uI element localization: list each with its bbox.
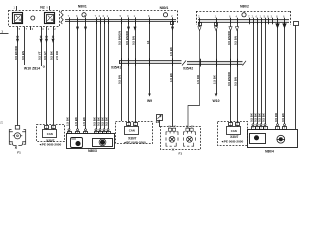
motor M2: [186, 128, 189, 131]
svg-text:E4: E4: [156, 120, 160, 124]
wire E4 to pump assembly: [159, 120, 161, 127]
arrowhead at W9: [148, 94, 151, 97]
rail pin: [199, 18, 201, 25]
connector rail of N80/2: [198, 19, 289, 22]
connector rail X35/42: [187, 61, 243, 64]
CAN connector X30/7c (dashed box): [218, 122, 248, 146]
svg-text:2.5 RD: 2.5 RD: [55, 51, 59, 60]
rail pin: [237, 18, 239, 25]
svg-text:1.5 BK: 1.5 BK: [169, 46, 173, 56]
pin 6 of N2: [30, 27, 32, 31]
pin tick above N2 left: [16, 6, 18, 10]
wire N80/2 to N80/4 pin 6: [284, 22, 286, 124]
rail pin: [277, 18, 279, 25]
svg-text:0.5 BK: 0.5 BK: [261, 112, 265, 122]
svg-text:◄PE 00/B-2000: ◄PE 00/B-2000: [39, 143, 62, 147]
module N80/4 (solid box): [248, 130, 298, 148]
svg-text:N80/1: N80/1: [78, 5, 87, 9]
rail pin: [272, 18, 274, 25]
control unit N80/1 (dashed box): [61, 11, 63, 25]
switch E4: [157, 115, 163, 121]
pin boxes of X30/7a: [45, 126, 49, 129]
pin 2 of N80/3: [68, 129, 70, 131]
rail pin: [253, 18, 255, 25]
wire to left edge: [0, 33, 9, 35]
pin 5 of N80/4: [264, 124, 266, 126]
module N80/3 (solid box): [67, 134, 115, 149]
wire N80/2 to CAN connector c right: [237, 24, 239, 122]
wire N80/2 to N80/4 pin 5: [277, 22, 279, 124]
pin boxes of X30/7b: [127, 123, 131, 126]
svg-text:W9: W9: [147, 99, 152, 103]
connector rail of N80/1: [65, 19, 176, 22]
rail pin: [85, 17, 87, 24]
pin 5 of N80/3: [107, 129, 109, 131]
svg-text:N80/4: N80/4: [265, 150, 274, 154]
svg-text:0.5 RD: 0.5 RD: [274, 113, 278, 122]
wire N80/1 through X35/41 to connector X30/7b: [121, 22, 123, 121]
CAN block of X30/7c: [227, 127, 241, 135]
svg-text:X35/41: X35/41: [111, 65, 121, 69]
pin boxes of X30/7c: [229, 123, 233, 126]
svg-text:◄PE 00/B-2000: ◄PE 00/B-2000: [123, 140, 146, 144]
rail pin: [69, 17, 71, 24]
rail pin: [172, 17, 174, 24]
rail pin: [216, 18, 218, 25]
svg-text:0.5 BK/RD: 0.5 BK/RD: [14, 46, 18, 60]
rail pin: [108, 17, 110, 24]
rail pin: [128, 17, 130, 24]
rail pin: [149, 17, 151, 24]
pin tick above N2 right: [49, 6, 51, 10]
svg-text:1.5 BK: 1.5 BK: [212, 74, 216, 84]
svg-text:0.5 BN/RD: 0.5 BN/RD: [227, 72, 231, 86]
pin 4 of N80/3: [95, 129, 97, 131]
svg-text:1.5 BK: 1.5 BK: [74, 116, 78, 126]
svg-text:CAN: CAN: [129, 128, 135, 132]
CAN block of X30/7a: [43, 130, 57, 138]
motor symbol in N80/4 right: [277, 135, 285, 143]
rail pin: [261, 18, 263, 25]
svg-text:CAN: CAN: [47, 132, 53, 136]
svg-text:0.5 BK: 0.5 BK: [49, 50, 53, 60]
rail X35/42 pin: [200, 59, 202, 67]
pin 7 of N2: [24, 27, 26, 31]
pin 5 of N2: [17, 27, 19, 31]
pin 1 of N2: [46, 27, 48, 31]
wire N80/1 to ground W9: [149, 22, 151, 94]
svg-text:1.5 RD: 1.5 RD: [196, 75, 200, 84]
svg-text:N2: N2: [40, 6, 45, 10]
relay K2 inside N2: [45, 13, 55, 24]
wire from N2 pin 3: [41, 30, 43, 66]
connector outside N80/2 right: [294, 22, 299, 26]
pin 2 of N2: [53, 27, 55, 31]
wire from N2 pin 2 to connector X30/7: [53, 30, 55, 125]
svg-text:W10: W10: [213, 99, 220, 103]
rail pin: [135, 17, 137, 24]
wire from N2 pin 1 to connector X30/7: [46, 30, 48, 125]
svg-text:0.5 BN/RD: 0.5 BN/RD: [125, 31, 129, 45]
lamp symbol in N80/1 right: [163, 13, 167, 17]
svg-text:0.5 BN: 0.5 BN: [21, 51, 25, 60]
svg-text:0.5 BN/GN: 0.5 BN/GN: [117, 31, 121, 45]
actuator symbol in N80/3 left: [71, 138, 83, 148]
CAN block of X30/7b: [125, 127, 139, 135]
rail pin: [268, 18, 270, 25]
wire N80/2 to N80/4 pin 2: [257, 22, 259, 124]
control unit N2 (dashed box): [9, 11, 60, 27]
rail pin: [249, 18, 251, 25]
wire N80/1 to N80/3 pin 3: [85, 24, 87, 129]
rail X35/41 pin: [128, 58, 130, 66]
wire N80/1 to N80/3 pin 2: [69, 24, 71, 129]
svg-text:0.5 BK: 0.5 BK: [104, 116, 108, 126]
pin 1 of N80/4: [256, 124, 258, 126]
pin 3 of N2: [41, 27, 43, 31]
rail X35/42 pin: [216, 59, 218, 67]
svg-text:0.5 BN/RD: 0.5 BN/RD: [227, 31, 231, 45]
rail X35/41 pin: [135, 58, 137, 66]
svg-text:F1: F1: [17, 150, 21, 154]
rail pin: [230, 18, 232, 25]
svg-text:CAN: CAN: [231, 129, 237, 133]
svg-text:N80/2: N80/2: [240, 5, 249, 9]
wire N80/1 to CAN connector left: [128, 22, 130, 123]
rail pin: [257, 18, 259, 25]
wire N80/2 to N80/4 pin 1: [253, 22, 255, 124]
svg-text:W10 Z814: W10 Z814: [24, 66, 40, 70]
CAN connector X30/7b (dashed box): [116, 122, 153, 144]
rail pin: [100, 17, 102, 24]
svg-text:1.5 BK: 1.5 BK: [65, 116, 69, 126]
rail pin: [96, 17, 98, 24]
wire N80/1 to N80/3 pin 1: [77, 24, 79, 129]
rail X35/42 pin: [237, 59, 239, 67]
pin 4 of N80/4: [252, 124, 254, 126]
svg-text:0.5 BK: 0.5 BK: [281, 112, 285, 122]
fuel pump F1: [9, 126, 25, 149]
rail pin: [284, 18, 286, 25]
lamp symbol in N80/1 left: [82, 13, 86, 17]
svg-text:1.5 BK: 1.5 BK: [82, 116, 86, 126]
rail separator slash: [182, 61, 186, 66]
wire N80/2 to N80/4 pin 4: [265, 22, 267, 124]
pin 1 of N80/3: [99, 129, 101, 131]
svg-text:0.5 VT: 0.5 VT: [37, 51, 41, 60]
wire N80/2 to CAN connector c left: [230, 24, 232, 122]
wire N80/1 to N80/3 pin 6: [104, 22, 106, 129]
wire N80/1 to N80/3 pin 7: [108, 22, 110, 129]
svg-text:1.5 BK: 1.5 BK: [169, 72, 173, 82]
control unit N80/2 (dashed box): [196, 11, 291, 13]
motor M1: [168, 128, 171, 131]
wire from N2 pin 5 to pump F1: [17, 30, 19, 126]
wire N80/1 to N80/3 pin 5: [100, 22, 102, 129]
lamp symbol in N80/2: [242, 13, 246, 17]
pin 1 of N80/3: [77, 129, 79, 131]
actuator symbol in N80/3 right: [93, 139, 113, 147]
relay K1 inside N2: [13, 13, 23, 24]
pin 6 of N80/4: [284, 124, 286, 126]
pump assembly (dashed box): [161, 127, 201, 150]
svg-text:X35/42: X35/42: [183, 67, 193, 71]
pin 3 of N80/3: [103, 129, 105, 131]
svg-text:0.5 BN: 0.5 BN: [131, 36, 135, 45]
wire N80/2 to ground W10b: [216, 24, 218, 93]
rail pin: [121, 17, 123, 24]
rail pin: [77, 17, 79, 24]
svg-text:N80/3: N80/3: [88, 149, 97, 153]
svg-text:F1: F1: [179, 151, 183, 155]
svg-text:0.5 BN: 0.5 BN: [233, 36, 237, 45]
pin 3 of N80/3: [85, 129, 87, 131]
arrowhead at W10b: [215, 94, 218, 97]
actuator symbol in N80/4 left: [250, 134, 266, 144]
svg-text:0.5 BN: 0.5 BN: [233, 77, 237, 86]
rail X35/41 pin: [149, 58, 151, 66]
wire N80/2 to pump motor M2 (with bend): [188, 24, 200, 128]
pin 2 of N80/4: [277, 124, 279, 126]
wire from outside connector to N80/4: [295, 26, 297, 130]
svg-text:13: 13: [146, 40, 150, 44]
svg-text:◄PE 00/B-2000: ◄PE 00/B-2000: [221, 139, 244, 143]
rail pin: [265, 18, 267, 25]
rail pin: [104, 17, 106, 24]
wire from N2 pin 7 to ground W10: [24, 30, 26, 65]
wire N80/2 to N80/4 pin 3: [261, 22, 263, 124]
rail X35/41 pin: [172, 58, 174, 66]
rail end slash: [243, 61, 247, 66]
CAN connector X30/7a (dashed box): [37, 125, 65, 142]
svg-text:0.5 GY: 0.5 GY: [43, 51, 47, 60]
indicator lamp inside N2: [31, 16, 35, 20]
rail X35/42 pin: [230, 59, 232, 67]
connector rail X35/41: [119, 60, 182, 63]
svg-text:N80/1: N80/1: [160, 6, 169, 10]
wire N80/1 to N80/3 pin 4: [96, 22, 98, 129]
rail X35/41 pin: [121, 58, 123, 66]
wire N80/1 to pump motor M1: [171, 22, 174, 25]
svg-text:0.5 BN: 0.5 BN: [117, 75, 121, 84]
wire N80/1 to CAN connector right: [135, 22, 137, 123]
pin 3 of N80/4: [260, 124, 262, 126]
